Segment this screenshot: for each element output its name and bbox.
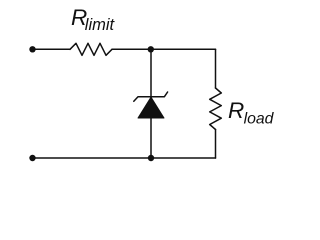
node junction dot top xyxy=(148,46,154,52)
diode D1 zener cathode bar xyxy=(134,92,168,101)
wire top rail left segment xyxy=(33,48,71,50)
wire right branch top xyxy=(215,49,217,88)
node terminal dot top-left xyxy=(29,46,35,52)
svg-text:load: load xyxy=(244,110,275,127)
node terminal dot bottom-left xyxy=(29,155,35,161)
label Rload xyxy=(228,98,275,127)
wire bottom rail xyxy=(33,157,216,159)
wire zener branch top xyxy=(150,49,152,96)
resistor R2 zigzag (Rload) xyxy=(210,88,222,130)
label Rlimit xyxy=(71,5,116,34)
wire right branch bottom xyxy=(215,130,217,159)
diode D1 zener anode triangle xyxy=(138,97,164,118)
wire zener branch bottom xyxy=(150,118,152,158)
svg-text:limit: limit xyxy=(85,16,116,34)
wire top rail right segment xyxy=(112,48,216,50)
resistor R1 zigzag (Rlimit) xyxy=(70,43,112,55)
svg-text:R: R xyxy=(228,98,244,123)
node junction dot bottom xyxy=(148,155,154,161)
